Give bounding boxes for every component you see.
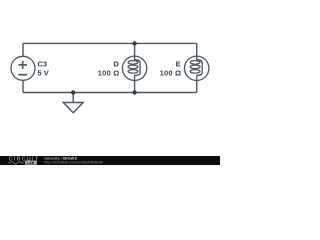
wire source C3 top lead [22, 43, 24, 56]
wire ground stem [72, 93, 74, 103]
wire bottom bus [23, 92, 197, 94]
svg-text:http://circuitlab.com/c/u9u2f3: http://circuitlab.com/c/u9u2f3kde96 [44, 161, 103, 165]
node junction top of lamp D [132, 41, 136, 45]
svg-text:C3: C3 [38, 60, 48, 69]
ground [63, 103, 83, 113]
node junction ground [71, 90, 75, 94]
wire lamp E bottom lead [196, 80, 198, 93]
wire lamp D bottom lead [134, 80, 136, 93]
footer bar [0, 156, 220, 165]
lamp E [185, 56, 209, 81]
wire top bus [23, 42, 197, 44]
svg-text:5 V: 5 V [38, 69, 49, 78]
svg-text:E: E [176, 60, 181, 69]
logo CircuitLab [8, 157, 40, 165]
voltage source C3 [11, 56, 35, 80]
wire source C3 bottom lead [22, 80, 24, 92]
svg-text:100 Ω: 100 Ω [160, 69, 182, 78]
svg-text:100 Ω: 100 Ω [98, 69, 120, 78]
svg-text:LAB: LAB [27, 161, 35, 165]
wire lamp E top lead [196, 43, 198, 57]
svg-text:D: D [113, 60, 119, 69]
node junction bottom of lamp D [132, 90, 136, 94]
wire lamp D top lead [134, 43, 136, 57]
lamp D [122, 56, 146, 81]
